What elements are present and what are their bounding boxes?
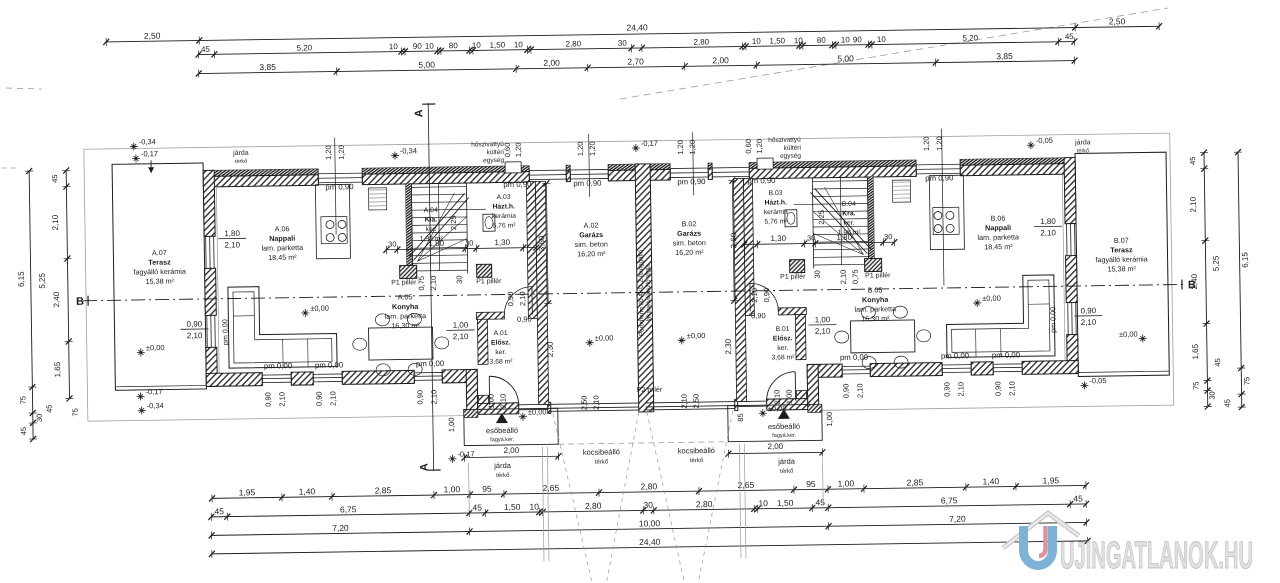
svg-text:Garázs: Garázs bbox=[579, 230, 603, 239]
svg-text:pm 0,90: pm 0,90 bbox=[677, 177, 706, 186]
svg-text:Garázs: Garázs bbox=[677, 229, 701, 238]
svg-text:B.04: B.04 bbox=[842, 201, 856, 208]
svg-text:hőszivattyú: hőszivattyú bbox=[471, 141, 504, 148]
svg-text:2,10: 2,10 bbox=[499, 394, 508, 409]
svg-text:1,30: 1,30 bbox=[770, 234, 786, 243]
svg-text:45: 45 bbox=[50, 174, 59, 182]
svg-text:1,50: 1,50 bbox=[489, 40, 505, 49]
svg-text:15,38 m²: 15,38 m² bbox=[146, 276, 175, 285]
svg-text:2,80: 2,80 bbox=[696, 499, 713, 509]
svg-text:fagyá.ker.: fagyá.ker. bbox=[490, 437, 514, 443]
svg-text:A.01: A.01 bbox=[494, 330, 508, 337]
svg-text:2,30: 2,30 bbox=[724, 338, 733, 354]
svg-text:0,90: 0,90 bbox=[415, 390, 424, 405]
svg-text:75: 75 bbox=[71, 408, 80, 416]
svg-text:-0,17: -0,17 bbox=[641, 139, 658, 148]
svg-text:Terasz: Terasz bbox=[1110, 245, 1133, 254]
svg-text:10: 10 bbox=[425, 42, 435, 51]
svg-text:45: 45 bbox=[214, 506, 224, 516]
svg-text:Konyha: Konyha bbox=[862, 295, 889, 304]
svg-text:2,50: 2,50 bbox=[692, 394, 701, 409]
svg-text:2,50: 2,50 bbox=[144, 31, 161, 41]
svg-text:járda: járda bbox=[1074, 139, 1091, 146]
svg-text:6,15: 6,15 bbox=[1240, 252, 1249, 268]
svg-text:5,76 m²: 5,76 m² bbox=[492, 222, 516, 229]
svg-text:Házt.h.: Házt.h. bbox=[493, 203, 515, 210]
svg-text:ker.: ker. bbox=[843, 220, 854, 227]
svg-text:0,90: 0,90 bbox=[751, 311, 766, 320]
svg-text:térkő: térkő bbox=[690, 458, 704, 464]
svg-text:2,10: 2,10 bbox=[1040, 228, 1056, 237]
svg-text:2,25: 2,25 bbox=[817, 210, 826, 225]
svg-text:45: 45 bbox=[201, 45, 211, 54]
svg-text:A: A bbox=[413, 109, 425, 117]
svg-text:esőbeálló: esőbeálló bbox=[486, 426, 518, 435]
svg-text:Kra.: Kra. bbox=[842, 210, 855, 217]
svg-text:A.03: A.03 bbox=[497, 194, 511, 201]
svg-text:1,00: 1,00 bbox=[444, 484, 461, 494]
svg-text:30: 30 bbox=[455, 275, 464, 283]
svg-text:45: 45 bbox=[1223, 399, 1232, 407]
svg-text:1,00: 1,00 bbox=[447, 417, 456, 432]
svg-text:1,00: 1,00 bbox=[453, 321, 469, 330]
svg-text:2,80: 2,80 bbox=[693, 37, 709, 46]
svg-text:B: B bbox=[1188, 279, 1196, 291]
svg-text:lam. parketta: lam. parketta bbox=[261, 243, 303, 253]
svg-text:B.02: B.02 bbox=[682, 219, 697, 228]
svg-text:5,20: 5,20 bbox=[962, 33, 978, 42]
svg-text:1,50: 1,50 bbox=[777, 498, 794, 508]
svg-text:kerámia: kerámia bbox=[492, 213, 516, 220]
svg-text:7,20: 7,20 bbox=[949, 514, 966, 524]
svg-text:térkő: térkő bbox=[1077, 148, 1089, 154]
svg-text:2,25: 2,25 bbox=[449, 215, 458, 230]
svg-text:0,90: 0,90 bbox=[993, 381, 1002, 396]
svg-text:0,90: 0,90 bbox=[1080, 306, 1096, 315]
svg-text:UJINGATLANOK.HU: UJINGATLANOK.HU bbox=[1060, 535, 1253, 577]
svg-text:1,80: 1,80 bbox=[224, 229, 240, 238]
svg-text:75: 75 bbox=[1242, 377, 1251, 385]
svg-text:A.02: A.02 bbox=[584, 221, 599, 230]
svg-text:pm 0,90: pm 0,90 bbox=[925, 173, 954, 182]
svg-text:0,90: 0,90 bbox=[841, 384, 850, 399]
svg-text:egység: egység bbox=[483, 157, 504, 164]
svg-text:5,76 m²: 5,76 m² bbox=[764, 218, 788, 225]
svg-text:90: 90 bbox=[853, 35, 863, 44]
svg-text:-0,34: -0,34 bbox=[139, 137, 156, 146]
svg-text:45: 45 bbox=[19, 427, 28, 435]
svg-text:1,65: 1,65 bbox=[1191, 343, 1200, 359]
svg-text:térkő: térkő bbox=[235, 159, 247, 165]
svg-text:16,20 m²: 16,20 m² bbox=[675, 248, 704, 257]
svg-text:sim. beton: sim. beton bbox=[673, 238, 706, 247]
svg-text:esőbeálló: esőbeálló bbox=[768, 422, 800, 431]
svg-text:2,10: 2,10 bbox=[518, 291, 527, 306]
svg-text:A.07: A.07 bbox=[152, 248, 167, 257]
svg-text:P1 pillér: P1 pillér bbox=[780, 274, 806, 281]
svg-text:2,10: 2,10 bbox=[1007, 381, 1016, 396]
svg-text:0,60: 0,60 bbox=[744, 139, 753, 154]
svg-text:75: 75 bbox=[1191, 382, 1200, 390]
svg-text:30: 30 bbox=[884, 232, 892, 241]
svg-text:45: 45 bbox=[1188, 157, 1197, 165]
svg-text:1,00: 1,00 bbox=[838, 478, 855, 488]
svg-text:2,80: 2,80 bbox=[585, 501, 602, 511]
svg-text:B.06: B.06 bbox=[990, 214, 1005, 223]
svg-text:1,20: 1,20 bbox=[676, 140, 685, 155]
svg-text:3,85: 3,85 bbox=[996, 51, 1013, 61]
svg-text:kerámia: kerámia bbox=[764, 209, 788, 216]
svg-text:B.05: B.05 bbox=[868, 285, 883, 294]
svg-text:A: A bbox=[419, 463, 431, 471]
svg-text:B: B bbox=[76, 296, 84, 308]
svg-text:2,40: 2,40 bbox=[52, 291, 61, 307]
svg-text:1,80: 1,80 bbox=[428, 239, 444, 248]
svg-text:5,20: 5,20 bbox=[297, 43, 313, 52]
svg-text:10: 10 bbox=[514, 40, 524, 49]
svg-text:A.05: A.05 bbox=[398, 292, 413, 301]
svg-text:30: 30 bbox=[807, 233, 815, 242]
svg-text:2,80: 2,80 bbox=[565, 39, 581, 48]
svg-text:±0,00: ±0,00 bbox=[528, 407, 547, 416]
svg-text:10,00: 10,00 bbox=[639, 518, 661, 528]
svg-text:1,00: 1,00 bbox=[487, 394, 496, 409]
svg-text:járda: járda bbox=[493, 461, 512, 470]
svg-text:80: 80 bbox=[449, 41, 459, 50]
svg-text:30: 30 bbox=[1208, 391, 1217, 399]
svg-text:15,38 m²: 15,38 m² bbox=[1107, 264, 1136, 273]
svg-text:30: 30 bbox=[643, 500, 653, 510]
svg-text:2,10: 2,10 bbox=[855, 383, 864, 398]
svg-text:-0,17: -0,17 bbox=[141, 149, 158, 158]
svg-text:0,90: 0,90 bbox=[517, 315, 532, 324]
svg-text:2,10: 2,10 bbox=[429, 390, 438, 405]
svg-text:±0,00: ±0,00 bbox=[687, 331, 706, 340]
svg-text:sim. beton: sim. beton bbox=[575, 239, 608, 248]
svg-text:1,30: 1,30 bbox=[494, 238, 510, 247]
svg-text:2,10: 2,10 bbox=[429, 276, 438, 291]
svg-text:pm 0,00: pm 0,00 bbox=[264, 361, 293, 370]
svg-text:30: 30 bbox=[388, 240, 396, 249]
svg-text:45: 45 bbox=[472, 502, 482, 512]
svg-text:3,68 m²: 3,68 m² bbox=[771, 354, 795, 361]
svg-text:1,80: 1,80 bbox=[836, 233, 852, 242]
svg-text:1,40: 1,40 bbox=[299, 486, 316, 496]
svg-text:pm 0,90: pm 0,90 bbox=[747, 176, 776, 185]
svg-text:ker.: ker. bbox=[777, 345, 788, 352]
svg-text:0,75: 0,75 bbox=[417, 276, 426, 291]
svg-text:2,00: 2,00 bbox=[543, 58, 560, 68]
svg-text:2,10: 2,10 bbox=[453, 332, 469, 341]
svg-text:3,68 m²: 3,68 m² bbox=[489, 358, 513, 365]
svg-text:45: 45 bbox=[45, 405, 54, 413]
svg-text:80: 80 bbox=[817, 36, 827, 45]
svg-text:térkő: térkő bbox=[595, 459, 609, 465]
svg-text:Elősz.: Elősz. bbox=[773, 335, 793, 342]
svg-text:-0,34: -0,34 bbox=[400, 146, 417, 155]
svg-text:5,00: 5,00 bbox=[837, 53, 854, 63]
svg-text:24,40: 24,40 bbox=[626, 22, 648, 32]
svg-text:2,10: 2,10 bbox=[956, 382, 965, 397]
svg-text:45: 45 bbox=[1073, 493, 1083, 503]
svg-text:5,25: 5,25 bbox=[1212, 255, 1221, 271]
svg-text:1,50: 1,50 bbox=[769, 36, 785, 45]
svg-text:±0,00: ±0,00 bbox=[146, 343, 165, 352]
svg-text:2,00: 2,00 bbox=[767, 442, 783, 451]
svg-text:2,50: 2,50 bbox=[1109, 16, 1126, 26]
svg-text:2,70: 2,70 bbox=[627, 56, 644, 66]
svg-text:2,10: 2,10 bbox=[224, 240, 240, 249]
svg-text:Kia.: Kia. bbox=[425, 217, 438, 224]
svg-text:±0,00: ±0,00 bbox=[768, 404, 787, 413]
svg-text:fagyálló kerámia: fagyálló kerámia bbox=[1095, 254, 1147, 264]
svg-text:fagyá.ker.: fagyá.ker. bbox=[772, 433, 796, 439]
svg-text:10: 10 bbox=[529, 502, 539, 512]
svg-text:45: 45 bbox=[1213, 358, 1222, 366]
svg-text:5,00: 5,00 bbox=[418, 60, 435, 70]
svg-text:45: 45 bbox=[815, 497, 825, 507]
svg-text:6,75: 6,75 bbox=[941, 495, 958, 505]
svg-text:-0,05: -0,05 bbox=[1036, 136, 1053, 145]
svg-text:10: 10 bbox=[389, 42, 399, 51]
svg-text:1,40: 1,40 bbox=[983, 476, 1000, 486]
svg-text:Terasz: Terasz bbox=[148, 257, 171, 266]
svg-text:0,60: 0,60 bbox=[503, 143, 512, 158]
svg-text:hőszivattyú: hőszivattyú bbox=[768, 137, 801, 144]
svg-text:2,30: 2,30 bbox=[546, 341, 555, 357]
svg-text:A.06: A.06 bbox=[275, 224, 290, 233]
svg-text:2,85: 2,85 bbox=[375, 485, 392, 495]
svg-text:2,10: 2,10 bbox=[328, 391, 337, 406]
svg-text:2,50: 2,50 bbox=[580, 395, 589, 410]
svg-text:2,00: 2,00 bbox=[712, 55, 729, 65]
svg-text:A.04: A.04 bbox=[424, 207, 438, 214]
svg-text:2,10: 2,10 bbox=[680, 394, 689, 409]
svg-text:3,85: 3,85 bbox=[259, 62, 276, 72]
svg-text:85: 85 bbox=[736, 413, 745, 421]
svg-text:0,90: 0,90 bbox=[187, 319, 203, 328]
svg-text:16,20 m²: 16,20 m² bbox=[577, 249, 606, 258]
svg-text:1,20: 1,20 bbox=[514, 142, 523, 157]
svg-text:2,10: 2,10 bbox=[772, 390, 781, 405]
svg-text:térkő: térkő bbox=[496, 473, 510, 479]
svg-text:lakáselválasztó tégla: lakáselválasztó tégla bbox=[645, 264, 653, 322]
svg-text:P1 pillér: P1 pillér bbox=[476, 278, 502, 285]
svg-text:18,45 m²: 18,45 m² bbox=[984, 242, 1013, 251]
svg-text:3,60: 3,60 bbox=[729, 232, 738, 248]
svg-text:1,20: 1,20 bbox=[922, 136, 931, 151]
svg-text:1,00: 1,00 bbox=[825, 412, 834, 427]
svg-text:30: 30 bbox=[35, 414, 44, 422]
svg-text:P1 pillér: P1 pillér bbox=[391, 279, 417, 286]
svg-text:0,75: 0,75 bbox=[851, 269, 860, 284]
svg-text:2,10: 2,10 bbox=[839, 270, 848, 285]
svg-text:1,65: 1,65 bbox=[53, 361, 62, 377]
svg-text:Konyha: Konyha bbox=[392, 302, 419, 311]
svg-text:16,30 m²: 16,30 m² bbox=[861, 314, 890, 323]
svg-text:pm 0,90: pm 0,90 bbox=[325, 182, 354, 191]
svg-text:pm 0,00: pm 0,00 bbox=[992, 350, 1021, 359]
svg-text:2,00: 2,00 bbox=[503, 446, 519, 455]
svg-text:-0,17: -0,17 bbox=[457, 449, 474, 458]
svg-text:24,40: 24,40 bbox=[639, 537, 661, 547]
svg-text:10: 10 bbox=[841, 35, 851, 44]
svg-text:0,90: 0,90 bbox=[314, 391, 323, 406]
svg-text:1,20: 1,20 bbox=[755, 139, 764, 154]
svg-text:7,20: 7,20 bbox=[332, 523, 349, 533]
svg-text:2,10: 2,10 bbox=[815, 327, 831, 336]
svg-text:16,30 m²: 16,30 m² bbox=[391, 321, 420, 330]
svg-text:10: 10 bbox=[758, 498, 768, 508]
svg-text:B.01: B.01 bbox=[776, 326, 790, 333]
svg-text:2,80: 2,80 bbox=[641, 481, 658, 491]
svg-text:térkő: térkő bbox=[780, 469, 794, 475]
svg-text:2,10: 2,10 bbox=[750, 288, 759, 303]
svg-text:±0,00: ±0,00 bbox=[982, 294, 1001, 303]
svg-text:75: 75 bbox=[18, 396, 27, 404]
svg-text:kültéri: kültéri bbox=[487, 149, 504, 156]
svg-text:90: 90 bbox=[413, 42, 423, 51]
svg-text:30: 30 bbox=[618, 39, 628, 48]
svg-text:1,20: 1,20 bbox=[324, 145, 333, 160]
svg-text:3,60: 3,60 bbox=[537, 235, 546, 251]
svg-text:2,10: 2,10 bbox=[187, 331, 203, 340]
svg-text:±0,00: ±0,00 bbox=[310, 304, 329, 313]
svg-text:pm 0,90: pm 0,90 bbox=[573, 179, 602, 188]
svg-text:pm 0,00: pm 0,00 bbox=[315, 360, 344, 369]
svg-text:2,10: 2,10 bbox=[51, 214, 60, 230]
svg-text:±0,00: ±0,00 bbox=[1119, 330, 1138, 339]
svg-text:10: 10 bbox=[877, 35, 887, 44]
svg-text:95: 95 bbox=[482, 484, 492, 494]
svg-text:kültéri: kültéri bbox=[784, 145, 801, 152]
svg-text:Nappali: Nappali bbox=[985, 223, 1011, 232]
svg-text:2,10: 2,10 bbox=[592, 395, 601, 410]
svg-text:Elősz.: Elősz. bbox=[491, 339, 511, 346]
svg-text:járda: járda bbox=[232, 150, 249, 157]
svg-text:járda: járda bbox=[777, 457, 796, 466]
svg-text:2,10: 2,10 bbox=[277, 392, 286, 407]
svg-text:2,10: 2,10 bbox=[1081, 318, 1097, 327]
svg-text:pm 0,00: pm 0,00 bbox=[840, 353, 869, 362]
svg-text:lam. parketta: lam. parketta bbox=[977, 232, 1019, 242]
svg-text:lam. parketta: lam. parketta bbox=[385, 311, 427, 321]
svg-text:10: 10 bbox=[794, 36, 804, 45]
svg-text:B.07: B.07 bbox=[1114, 236, 1129, 245]
svg-text:fagyálló kerámia: fagyálló kerámia bbox=[133, 267, 185, 277]
svg-text:egység: egység bbox=[780, 153, 801, 160]
svg-text:5,25: 5,25 bbox=[38, 272, 47, 288]
svg-text:1,20: 1,20 bbox=[935, 136, 944, 151]
svg-text:2,10: 2,10 bbox=[1189, 196, 1198, 212]
svg-text:kocsibeálló: kocsibeálló bbox=[678, 446, 715, 456]
svg-text:B.03: B.03 bbox=[769, 190, 783, 197]
svg-text:0,90: 0,90 bbox=[506, 292, 515, 307]
svg-text:2,85: 2,85 bbox=[907, 477, 924, 487]
svg-text:0,90: 0,90 bbox=[263, 392, 272, 407]
svg-text:6,15: 6,15 bbox=[17, 271, 26, 287]
svg-text:pm 0,90: pm 0,90 bbox=[503, 180, 532, 189]
svg-text:1,00: 1,00 bbox=[815, 315, 831, 324]
svg-text:18,45 m²: 18,45 m² bbox=[268, 253, 297, 262]
svg-text:Nappali: Nappali bbox=[269, 234, 295, 243]
svg-text:1,20: 1,20 bbox=[576, 141, 585, 156]
svg-text:1,20: 1,20 bbox=[688, 140, 697, 155]
svg-text:2,65: 2,65 bbox=[543, 483, 560, 493]
svg-text:pm 0,00: pm 0,00 bbox=[1048, 307, 1057, 333]
svg-text:pm 0,00: pm 0,00 bbox=[941, 351, 970, 360]
svg-text:1,20: 1,20 bbox=[337, 145, 346, 160]
svg-text:95: 95 bbox=[806, 479, 816, 489]
svg-text:-0,17: -0,17 bbox=[145, 387, 162, 396]
svg-text:45: 45 bbox=[1065, 32, 1075, 41]
svg-text:Házt.h.: Házt.h. bbox=[765, 199, 787, 206]
svg-text:-0,34: -0,34 bbox=[147, 401, 164, 410]
svg-text:1,50: 1,50 bbox=[504, 502, 521, 512]
svg-text:ker.: ker. bbox=[426, 226, 437, 233]
svg-text:1,95: 1,95 bbox=[239, 487, 256, 497]
svg-text:-0,05: -0,05 bbox=[1089, 376, 1106, 385]
svg-text:6,75: 6,75 bbox=[340, 504, 357, 514]
svg-text:kocsibeálló: kocsibeálló bbox=[583, 447, 620, 457]
svg-text:10: 10 bbox=[752, 37, 762, 46]
svg-text:0,90: 0,90 bbox=[942, 382, 951, 397]
svg-text:30: 30 bbox=[465, 238, 473, 247]
svg-text:lam. parketta: lam. parketta bbox=[854, 304, 896, 314]
svg-text:P1 pillér: P1 pillér bbox=[865, 272, 891, 279]
svg-text:1,95: 1,95 bbox=[1043, 475, 1060, 485]
svg-text:ker.: ker. bbox=[495, 349, 506, 356]
svg-text:0,90: 0,90 bbox=[762, 288, 771, 303]
svg-text:pm 0,00: pm 0,00 bbox=[416, 359, 445, 368]
svg-text:1,80: 1,80 bbox=[1040, 217, 1056, 226]
svg-text:30: 30 bbox=[813, 270, 822, 278]
svg-text:pm 0,00: pm 0,00 bbox=[220, 319, 229, 345]
svg-text:P2 pillér: P2 pillér bbox=[637, 387, 663, 394]
svg-text:±0,00: ±0,00 bbox=[595, 333, 614, 342]
svg-text:10: 10 bbox=[472, 41, 482, 50]
svg-text:1,00: 1,00 bbox=[784, 389, 793, 404]
